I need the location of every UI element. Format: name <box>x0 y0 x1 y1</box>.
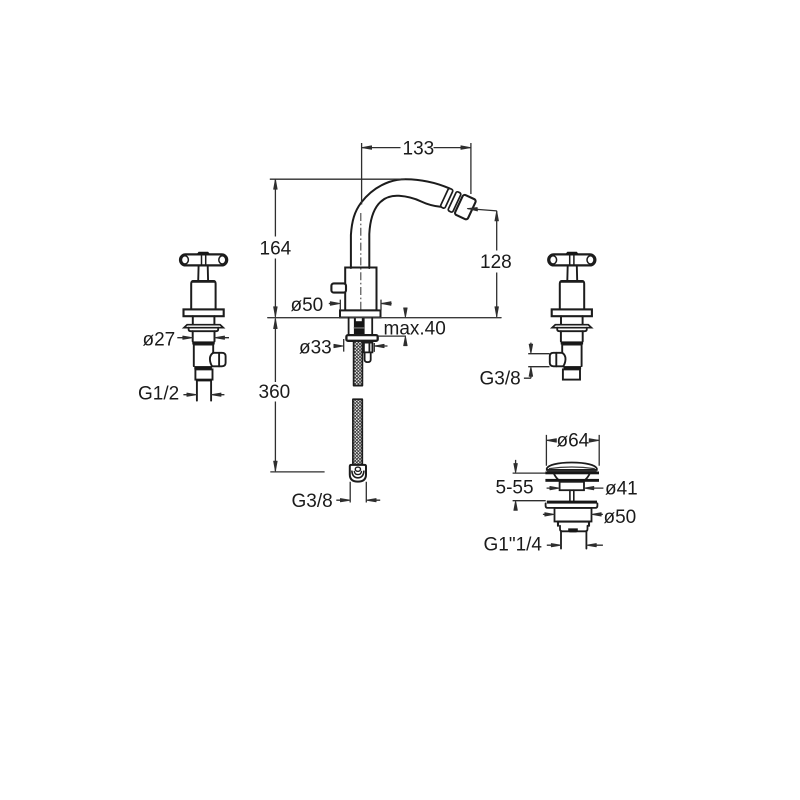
svg-text:ø50: ø50 <box>291 295 324 316</box>
braided hose lower segment <box>353 399 362 465</box>
svg-text:max.40: max.40 <box>384 319 446 340</box>
dimension G1"1/4 tailpiece <box>547 544 603 546</box>
spout outer curve <box>351 179 449 268</box>
svg-text:5-55: 5-55 <box>496 478 534 499</box>
dimension 133 spout reach <box>362 143 471 205</box>
aerator ring 2 <box>448 191 462 212</box>
basin washer dark band <box>545 479 599 482</box>
tapered bowl sides <box>554 474 589 481</box>
dimension o27 left valve <box>177 337 229 339</box>
dimension o64 drain cap <box>546 435 599 466</box>
right valve G3/8 (mirrored) <box>548 252 595 380</box>
svg-text:ø41: ø41 <box>605 479 638 500</box>
faucet body <box>345 268 376 311</box>
dimension o33 shank <box>344 339 388 352</box>
svg-text:128: 128 <box>480 252 512 273</box>
base plate <box>340 310 381 317</box>
upper cylinder (o41) <box>560 482 584 490</box>
svg-text:ø33: ø33 <box>299 338 332 359</box>
dimension G3/8 right valve <box>524 343 550 379</box>
braided hose upper segment <box>354 341 363 386</box>
centerline faucet axis <box>360 213 362 318</box>
svg-text:G1/2: G1/2 <box>138 384 179 405</box>
mounting flange nut <box>346 335 377 341</box>
deck line <box>268 317 501 319</box>
shank outer walls below deck <box>349 318 373 335</box>
svg-text:G1"1/4: G1"1/4 <box>484 535 543 556</box>
svg-text:G3/8: G3/8 <box>480 369 521 390</box>
svg-text:133: 133 <box>403 139 435 160</box>
step 2 rounded <box>560 526 588 532</box>
step 1 <box>557 522 589 526</box>
svg-text:164: 164 <box>260 239 292 260</box>
svg-text:ø27: ø27 <box>143 330 176 351</box>
center plug detail (dark) <box>568 528 578 532</box>
drain dome cap <box>547 463 597 470</box>
left valve dark ring below connector <box>196 380 212 382</box>
svg-text:ø50: ø50 <box>604 507 637 528</box>
flange plate <box>546 503 598 508</box>
handle knob on body left <box>331 283 346 292</box>
dimension 5-55 drain range <box>513 460 546 511</box>
side nipple fitting <box>362 343 372 353</box>
cap gasket dark band <box>545 472 599 475</box>
left valve G1/2 <box>180 252 227 380</box>
left valve tailpiece tube <box>197 381 211 400</box>
drain body (o50) <box>555 508 592 522</box>
dimension 360 hose length <box>270 319 324 472</box>
dimension max.40 deck thickness <box>378 309 406 346</box>
aerator ring 1 <box>440 188 453 209</box>
dimension o50 drain body <box>543 513 603 515</box>
aerator rings and end cap <box>440 187 477 220</box>
dimension G3/8 hose nut <box>336 482 380 503</box>
dimension o41 <box>547 487 604 489</box>
dimension 164 height <box>270 179 405 317</box>
dimension o50 base <box>329 300 392 311</box>
svg-text:G3/8: G3/8 <box>292 491 333 512</box>
stem <box>570 490 574 500</box>
svg-text:360: 360 <box>259 382 291 403</box>
dimension G1/2 left valve <box>183 394 224 396</box>
dimension 128 spout height <box>468 209 497 317</box>
flange dark bar <box>547 501 597 504</box>
threaded tailpiece tube <box>561 531 586 548</box>
hose end nut <box>350 465 366 482</box>
threaded rod (dark) <box>354 318 365 335</box>
spout inner curve <box>369 196 440 268</box>
aerator end cap <box>454 194 476 220</box>
svg-text:ø64: ø64 <box>557 431 590 452</box>
